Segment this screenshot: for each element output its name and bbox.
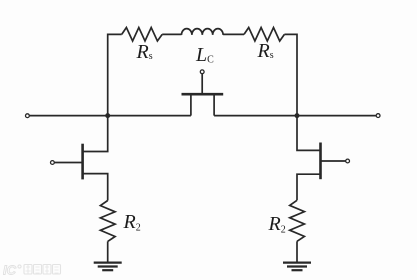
wire right vertical of top loop bbox=[284, 34, 297, 115]
terminal gate of M1 bbox=[51, 161, 55, 165]
transistor M3 left leg bbox=[190, 96, 192, 116]
svg-text:IC: IC bbox=[3, 263, 17, 278]
ground right bbox=[283, 263, 311, 271]
wire gate lead M2 bbox=[321, 160, 346, 162]
terminal right port bbox=[376, 114, 380, 118]
resistor R_S right bbox=[244, 28, 284, 42]
transistor M3 right leg bbox=[213, 96, 215, 116]
watermark bbox=[3, 262, 63, 278]
wire source lead M1 bbox=[84, 174, 108, 201]
label R_S left bbox=[137, 41, 153, 64]
node A junction left bbox=[105, 113, 110, 118]
label R2 left bbox=[124, 211, 141, 234]
wire source lead M2 bbox=[297, 174, 320, 200]
wire between inductor and right resistor bbox=[223, 33, 244, 35]
wire gate lead M1 bbox=[54, 162, 82, 164]
wire drain lead M2 bbox=[297, 116, 320, 151]
ground left bbox=[94, 263, 122, 271]
terminal gate of M3 bbox=[200, 70, 204, 74]
terminal gate of M2 bbox=[346, 159, 350, 163]
label L_C bbox=[196, 44, 214, 67]
wire main right rail bbox=[214, 115, 376, 117]
label R2 right bbox=[269, 213, 286, 236]
resistor R2 left bbox=[100, 201, 115, 242]
resistor R2 right bbox=[290, 200, 305, 241]
transistor M2 right channel bar bbox=[319, 143, 322, 180]
wire drain lead M1 bbox=[84, 116, 108, 152]
terminal left port bbox=[26, 114, 30, 118]
wire R2 left to ground bbox=[107, 241, 109, 262]
transistor M3 middle gate plate bbox=[182, 93, 224, 96]
wire between left resistor and inductor bbox=[162, 33, 181, 35]
transistor M1 left channel bar bbox=[81, 144, 84, 180]
node B junction right bbox=[295, 113, 300, 118]
transistor M3 gate stem bbox=[201, 74, 203, 95]
wire main left rail bbox=[29, 115, 191, 117]
wire left vertical of top loop bbox=[108, 34, 122, 115]
label R_S right bbox=[258, 40, 274, 63]
wire R2 right to ground bbox=[296, 241, 298, 262]
inductor L_C coil bbox=[182, 29, 224, 35]
resistor R_S left bbox=[122, 28, 163, 42]
